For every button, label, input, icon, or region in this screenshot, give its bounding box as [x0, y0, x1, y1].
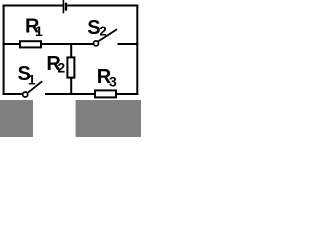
wire middle row left (left rail to R1)	[3, 43, 21, 45]
wire bottom row right (R3 to right rail)	[117, 93, 138, 95]
wire R2 bottom lead to bottom rail	[70, 78, 72, 95]
svg-text:2: 2	[99, 24, 106, 39]
wire left rail	[3, 5, 5, 96]
resistor R2 body	[67, 57, 74, 77]
gray mask left	[0, 100, 33, 137]
switch S1 blade (open)	[28, 81, 42, 93]
gray mask right	[76, 100, 141, 137]
svg-text:2: 2	[57, 59, 65, 75]
wire top right (battery right lead)	[67, 5, 138, 7]
switch S2 blade (open)	[98, 29, 117, 41]
wire bottom row center (S1 to R3)	[45, 93, 95, 95]
wire middle row right (S2 to right rail)	[118, 43, 139, 45]
resistor R1 body	[20, 41, 41, 47]
switch S2 hinge circle	[94, 41, 99, 46]
wire top left (battery left lead)	[3, 5, 63, 7]
wire middle row center (R1 to node A to S2)	[42, 43, 93, 45]
battery B1 long plate	[62, 0, 64, 13]
svg-text:1: 1	[28, 72, 36, 88]
switch S1 hinge circle	[23, 92, 28, 97]
svg-text:1: 1	[35, 23, 43, 39]
wire bottom row left (left rail to S1)	[3, 93, 23, 95]
resistor R3 body	[95, 90, 116, 97]
node A junction (middle wire to R2)	[70, 44, 72, 57]
battery B1 short thick plate	[65, 3, 67, 11]
svg-text:3: 3	[109, 74, 117, 90]
wire right rail	[136, 5, 138, 96]
